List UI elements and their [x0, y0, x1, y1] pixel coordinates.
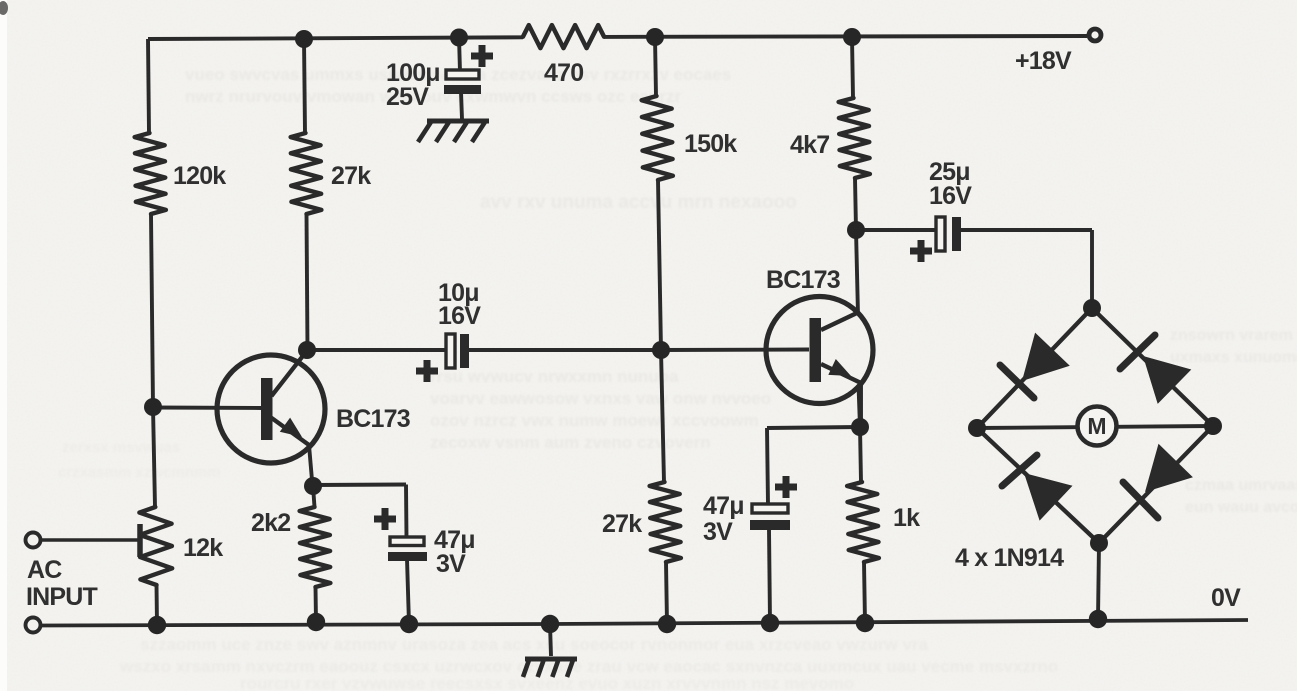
svg-text:uxmaxs xunuomcv: uxmaxs xunuomcv — [1170, 349, 1297, 366]
svg-text:27k: 27k — [602, 510, 642, 538]
svg-text:voarvv eawwosow vxnxs vaw onw: voarvv eawwosow vxnxs vaw onw nvvoeo — [430, 389, 771, 408]
svg-text:16V: 16V — [438, 302, 481, 330]
svg-text:120k: 120k — [173, 162, 226, 190]
svg-text:M: M — [1087, 413, 1106, 439]
svg-text:nwrz nrurvouv vmowan wxexouv c: nwrz nrurvouv vmowan wxexouv cxwmwvn ccs… — [185, 87, 681, 106]
svg-text:czmaa umrvaasx: czmaa umrvaasx — [1185, 477, 1297, 494]
svg-text:1k: 1k — [893, 504, 920, 532]
svg-text:zecoxw vsnm aum zveno czvovern: zecoxw vsnm aum zveno czvovern — [430, 433, 711, 452]
svg-text:AC: AC — [27, 556, 62, 584]
svg-text:BC173: BC173 — [766, 266, 840, 294]
svg-text:ozov nzrcz vwx numw moewr xccv: ozov nzrcz vwx numw moewr xccvoowm — [430, 411, 759, 430]
svg-text:INPUT: INPUT — [26, 583, 98, 611]
svg-text:16V: 16V — [929, 182, 972, 210]
svg-text:0V: 0V — [1211, 584, 1241, 612]
svg-text:27k: 27k — [331, 162, 371, 190]
svg-text:12k: 12k — [183, 534, 223, 562]
svg-text:szzaomm uce znze swv aznmnv ur: szzaomm uce znze swv aznmnv urasoza zea … — [140, 635, 929, 654]
svg-text:crzxasmm xzwcmnmm: crzxasmm xzwcmnmm — [58, 464, 221, 481]
svg-text:470: 470 — [544, 59, 583, 87]
svg-text:47μ: 47μ — [703, 492, 744, 520]
svg-text:zerxsx msvwuas: zerxsx msvwuas — [62, 439, 180, 456]
svg-text:+18V: +18V — [1015, 47, 1072, 75]
svg-text:rourcru rxer vzvwuwse reecsxsx: rourcru rxer vzvwuwse reecsxsx svxeenz e… — [240, 674, 854, 691]
svg-text:4k7: 4k7 — [790, 131, 829, 159]
svg-text:4 x 1N914: 4 x 1N914 — [955, 544, 1064, 572]
svg-text:BC173: BC173 — [336, 405, 410, 433]
svg-text:znsowrn vrarem svu: znsowrn vrarem svu — [1170, 327, 1297, 344]
svg-text:150k: 150k — [684, 130, 737, 158]
svg-text:eun wauu avcoen: eun wauu avcoen — [1185, 499, 1297, 516]
svg-text:rrsu wvwucv nrwxxmn nunuoa: rrsu wvwucv nrwxxmn nunuoa — [430, 367, 679, 386]
svg-text:2k2: 2k2 — [251, 509, 290, 537]
svg-text:avv rxv unuma accvu mrn nexaoo: avv rxv unuma accvu mrn nexaooo — [480, 192, 797, 213]
svg-text:3V: 3V — [436, 550, 466, 578]
svg-text:3V: 3V — [703, 518, 733, 546]
svg-text:25V: 25V — [386, 83, 429, 111]
